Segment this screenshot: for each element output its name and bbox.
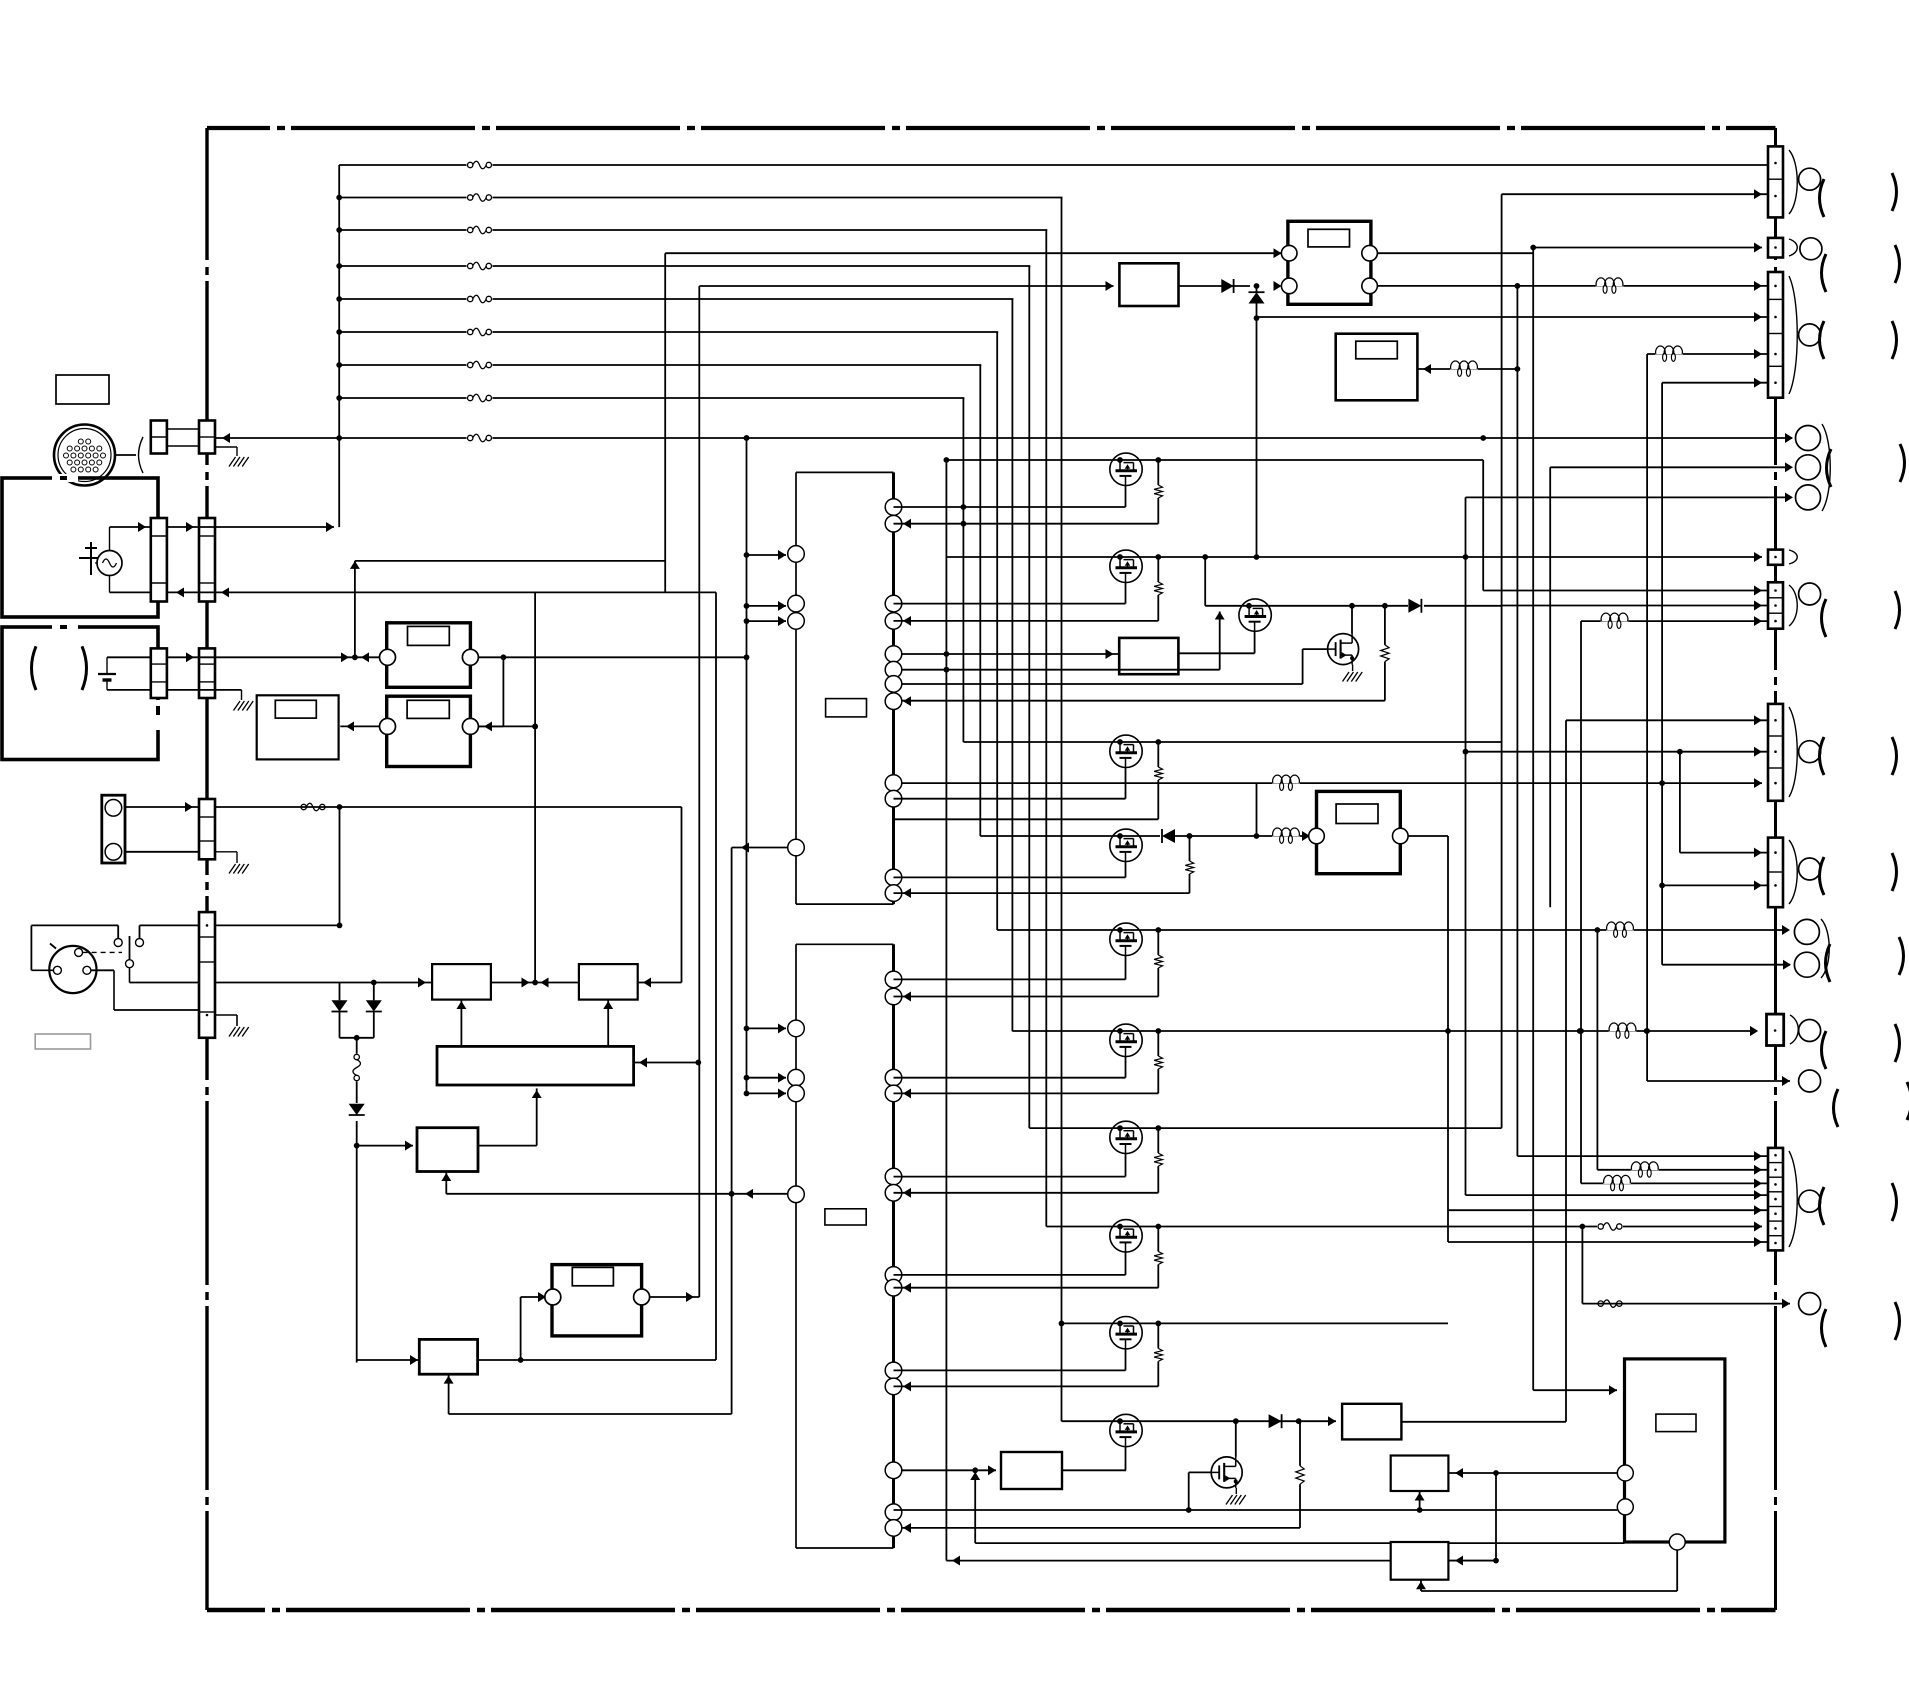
wire bus stub down bbox=[338, 526, 340, 528]
wire B12 out bbox=[1178, 652, 1254, 654]
IC U2 pin bbox=[885, 1085, 902, 1102]
diode D6 bbox=[1179, 285, 1251, 287]
wire conn9 bottom bbox=[1466, 496, 1792, 498]
diode D1 bbox=[339, 983, 341, 1001]
connector CN13 ring bbox=[1799, 858, 1821, 880]
wire B13 bottom bbox=[1419, 1491, 1421, 1510]
wire charge line bbox=[167, 526, 334, 528]
wire ECU p1 branch bbox=[1495, 1473, 1497, 1561]
wire relay feed riser bbox=[354, 561, 356, 657]
inductor L4 bbox=[1272, 828, 1300, 837]
wire R2 coil bbox=[532, 724, 538, 730]
wire conn11 p2 bbox=[1502, 605, 1768, 607]
box B14 bbox=[1391, 1542, 1449, 1580]
wire R4 out bbox=[1408, 835, 1448, 837]
wire source bbox=[1125, 1154, 1127, 1177]
fuse F2 bbox=[467, 193, 493, 203]
connector CN8 ring bbox=[1799, 324, 1821, 346]
wire Q10 gate bbox=[1188, 1472, 1190, 1510]
wire Q10 gate2 bbox=[1189, 1509, 1618, 1511]
wire bus nested risers bbox=[1063, 195, 1771, 200]
wire IC1 pin4 stub bbox=[732, 847, 788, 849]
wire cn16 p4 bbox=[1466, 1194, 1769, 1196]
text parens bbox=[1820, 179, 1825, 217]
wire vertical riser bbox=[1011, 299, 1013, 1031]
IC U2 pin bbox=[885, 1362, 902, 1379]
IC U2 pin bbox=[885, 1520, 902, 1537]
wire source bbox=[1125, 583, 1127, 604]
wire source bbox=[1125, 1057, 1127, 1078]
relay R4 pins bbox=[1309, 828, 1325, 844]
connector CN1a bbox=[151, 421, 167, 454]
IC U2 pin bbox=[788, 1020, 805, 1037]
wire riser bbox=[1501, 194, 1503, 1128]
fuse F11 bbox=[1597, 1222, 1623, 1232]
wire lower return bbox=[974, 1470, 976, 1543]
IC U2 pin bbox=[885, 988, 902, 1005]
label box (blank callout) bbox=[56, 375, 109, 404]
IC U2 pin bbox=[885, 1378, 902, 1395]
inductor L1 bbox=[1596, 277, 1624, 286]
wire ECU p1 bbox=[1448, 1472, 1617, 1474]
relay R4 (pump relay) bbox=[1317, 791, 1401, 873]
connector CN5 on boundary bbox=[199, 912, 215, 1038]
connector CN16 ring bbox=[1799, 1190, 1821, 1212]
connector CN3a bbox=[151, 648, 167, 698]
wire into B7 bbox=[357, 1359, 716, 1361]
connector CN10 (1-pin) bbox=[1768, 550, 1783, 565]
connector CN11 (3-pin) bbox=[1768, 582, 1783, 628]
wire lower circle feed bbox=[1647, 1080, 1790, 1082]
IC U1 pin bbox=[885, 595, 902, 612]
connector CN2a bbox=[151, 518, 167, 602]
connector CN17 ring bbox=[1799, 1293, 1821, 1315]
box B8 (driver) bbox=[1342, 1404, 1401, 1440]
IC U1 pin bbox=[788, 595, 805, 612]
wire source bbox=[1125, 956, 1127, 980]
box B10 (igniter) bbox=[1119, 263, 1178, 306]
transistor Q bbox=[1110, 735, 1142, 767]
wire drop to relay R4 bbox=[1256, 783, 1258, 836]
connector CN14 (2 rings) bbox=[1794, 919, 1819, 944]
transistor Q bbox=[1110, 829, 1142, 861]
wire R1 to R2 bbox=[502, 657, 504, 726]
wire fuse branch 8 bbox=[339, 397, 1770, 399]
fuse F9 bbox=[300, 802, 326, 812]
label box grey bbox=[35, 1034, 90, 1049]
wire return riser bbox=[715, 592, 717, 1360]
text parens bbox=[1822, 1309, 1827, 1347]
zener diode D7 bbox=[1256, 286, 1258, 292]
inductor L8 bbox=[1606, 922, 1634, 931]
transistor Q bbox=[1110, 1317, 1142, 1349]
wire conn3 pin4 feed bbox=[1661, 383, 1663, 965]
wire return drop bbox=[534, 592, 536, 982]
connector CN7 (1-pin) bbox=[1768, 238, 1783, 258]
ECU pin2 bbox=[1617, 1499, 1633, 1515]
wire ground stub CN1b bbox=[215, 446, 237, 448]
wire fuse branch 1 bbox=[339, 164, 1768, 166]
IC U2 label bbox=[825, 1209, 866, 1225]
IC U2 pin bbox=[788, 1085, 805, 1102]
resistor R bbox=[1155, 1321, 1161, 1327]
inductor L11 bbox=[1603, 1175, 1631, 1184]
wire source bbox=[1125, 1252, 1127, 1275]
diode D5 bbox=[1269, 1414, 1282, 1428]
ground bbox=[229, 1027, 236, 1037]
text parens bbox=[1826, 944, 1831, 982]
wire aux feed bbox=[1254, 315, 1260, 321]
IC U1 pin bbox=[885, 499, 902, 516]
relay R5 pins bbox=[1281, 245, 1297, 261]
wire ECU feed bbox=[1532, 248, 1534, 1391]
fuse F5 bbox=[467, 294, 493, 304]
wire cn16 p5 bbox=[1448, 1209, 1768, 1211]
wire connector tail bbox=[116, 454, 137, 456]
transistor Q bbox=[1110, 550, 1142, 582]
wire battery ground bbox=[167, 689, 242, 691]
connector CN8 (4-pin) bbox=[1768, 272, 1783, 398]
text parens bbox=[1822, 1031, 1827, 1069]
wire cn17 line bbox=[1582, 1303, 1790, 1305]
wire R2 to B1 bbox=[340, 725, 379, 727]
wire main feed bus vertical bbox=[338, 165, 340, 527]
IC block U2 bbox=[796, 944, 894, 1548]
multi-pin round connector bbox=[54, 425, 115, 486]
wire vertical riser bbox=[979, 365, 981, 836]
wire switch loop bbox=[31, 969, 53, 971]
box B1 (regulator) bbox=[257, 695, 339, 759]
inductor L10 bbox=[1631, 1161, 1659, 1170]
ground bbox=[1226, 1495, 1233, 1505]
wire IC2 left pin feed bbox=[744, 1075, 750, 1081]
wire cn17 drop bbox=[1581, 1227, 1583, 1304]
IC U2 pin bbox=[788, 1069, 805, 1086]
IC U1 pin bbox=[885, 693, 902, 710]
connector CN6 ring bbox=[1799, 168, 1821, 190]
IC U1 pin bbox=[788, 613, 805, 630]
relay R5 (main relay) bbox=[1288, 221, 1371, 304]
wire fuse branch 2 bbox=[339, 197, 1770, 199]
ground bbox=[229, 457, 236, 467]
transistor Q11 bbox=[1205, 605, 1501, 607]
fuse F12 bbox=[1597, 1299, 1623, 1309]
ground bbox=[234, 701, 241, 711]
transistor Q bbox=[1110, 1024, 1142, 1056]
connector CN4 on boundary bbox=[199, 799, 215, 859]
IC U1 pin bbox=[885, 613, 902, 630]
battery box 1 (generator unit) bbox=[2, 478, 158, 617]
wire vertical riser bbox=[1061, 198, 1063, 1422]
transistor Q bbox=[1110, 1220, 1142, 1252]
wire source bbox=[1125, 1349, 1127, 1371]
wire fuse branch 3 bbox=[339, 229, 1770, 231]
IC U2 pin bbox=[885, 1504, 902, 1521]
wire B12 input bbox=[902, 653, 1120, 655]
wire cn16 p2 bbox=[1597, 1169, 1768, 1171]
text parens bbox=[1820, 857, 1825, 895]
wire cn16 p3 bbox=[1581, 1182, 1768, 1184]
connector CN16 (8-pin) bbox=[1768, 1148, 1783, 1251]
IC U1 pin bbox=[788, 839, 805, 856]
IC U2 pin bbox=[885, 1462, 902, 1479]
connector CN1b on boundary bbox=[199, 421, 215, 454]
IC U1 label bbox=[826, 699, 867, 717]
wire cn16 p8 bbox=[1448, 1241, 1768, 1243]
fuse F8 bbox=[467, 393, 493, 403]
wire driver row bbox=[997, 929, 1788, 931]
wire B7 bottom feed bbox=[448, 1374, 450, 1414]
wire conn3 pin3 feed bbox=[1646, 354, 1648, 1081]
wire relay R5 feed bbox=[665, 252, 1281, 254]
wire generator output bbox=[109, 527, 111, 551]
box B6 bbox=[579, 964, 638, 1000]
connector CN12 ring bbox=[1799, 741, 1821, 763]
IC U2 pin bbox=[788, 1186, 805, 1203]
wire diode join bbox=[340, 1037, 374, 1039]
wire feedback line bbox=[446, 1193, 796, 1195]
wire cn16 p1 bbox=[1517, 1155, 1768, 1157]
ECU label bbox=[1656, 1414, 1696, 1432]
wire R3 feed bbox=[520, 1297, 522, 1360]
wire lower feedback bbox=[449, 1413, 732, 1415]
transistor Q10 (low-side) bbox=[1235, 1421, 1237, 1457]
wire ECU p3 bbox=[1676, 1550, 1678, 1591]
junction dots bbox=[744, 435, 750, 441]
switch contacts bbox=[83, 951, 122, 953]
box B5 bbox=[432, 964, 491, 1000]
diode D4 bbox=[1160, 829, 1175, 843]
IC U2 pin bbox=[885, 1168, 902, 1185]
wire driver row bbox=[980, 835, 1162, 837]
relay R2 pin 2 bbox=[462, 718, 478, 734]
wire sensor signal bbox=[125, 806, 199, 808]
fuse F1 bbox=[467, 160, 493, 170]
connector CN9 (3 rings) bbox=[1796, 426, 1821, 451]
resistor R bbox=[1155, 927, 1161, 933]
wire battery feed to relay bbox=[167, 656, 388, 658]
wire fuse branch 5 bbox=[339, 298, 1770, 300]
resistor R bbox=[1155, 739, 1161, 745]
IC U2 pin bbox=[885, 1185, 902, 1202]
wire R3 riser bbox=[698, 286, 700, 1297]
wire Q12 gate bbox=[1302, 649, 1304, 684]
wire sensor return bbox=[125, 851, 199, 853]
wire R11 return bbox=[902, 700, 1385, 702]
wire B8 output bbox=[1401, 1421, 1566, 1423]
wire battery negative bbox=[107, 689, 151, 691]
wire B9 out bbox=[1062, 1469, 1126, 1471]
transistor Q bbox=[1110, 1121, 1142, 1153]
text parens bbox=[1834, 1089, 1839, 1127]
box B7 bbox=[419, 1339, 477, 1374]
wire ignition feed branch bbox=[215, 437, 1792, 439]
transistor Q9 bbox=[1110, 1414, 1142, 1446]
wire driver row bbox=[946, 459, 1483, 461]
wire switch output bbox=[130, 982, 433, 984]
wire conn12 p2 bbox=[1466, 751, 1769, 753]
IC U1 pin bbox=[885, 661, 902, 678]
text parens bbox=[1822, 254, 1827, 292]
connector CN15 (1-pin) bbox=[1767, 1014, 1784, 1045]
resistor R bbox=[1187, 833, 1193, 839]
resistor R bbox=[1155, 1028, 1161, 1034]
resistor R bbox=[1155, 1224, 1161, 1230]
wire R5 out2 bbox=[1377, 285, 1770, 287]
battery text parens bbox=[32, 646, 37, 690]
text parens bbox=[1820, 321, 1825, 359]
wire conn9 mid bbox=[1550, 466, 1791, 468]
relay R3 pin2 bbox=[634, 1289, 650, 1305]
diode D3 bbox=[349, 1103, 365, 1121]
key switch SW1 bbox=[49, 946, 96, 993]
connector CN3b on boundary bbox=[199, 648, 215, 698]
resistor R11 bbox=[1384, 606, 1386, 645]
wire vertical riser bbox=[1045, 230, 1047, 1227]
transistor Q12 (low-side) bbox=[1351, 606, 1353, 634]
wire conn11 p3 bbox=[1581, 620, 1768, 622]
circuit breaker CB1 bbox=[352, 1054, 362, 1082]
resistor R bbox=[1155, 457, 1161, 463]
fuse F7 bbox=[467, 360, 493, 370]
inductor L2 bbox=[1450, 361, 1478, 370]
text parens bbox=[1820, 737, 1825, 775]
ECU pin1 bbox=[1617, 1465, 1633, 1481]
wire relay feed top bbox=[355, 560, 665, 562]
wire into B14 bbox=[1455, 1556, 1463, 1566]
transistor Q bbox=[1110, 453, 1142, 485]
relay R2 pin 1 bbox=[380, 718, 396, 734]
wire conn13 p2 bbox=[1662, 884, 1768, 886]
wire B14 bottom bbox=[1420, 1580, 1422, 1591]
wire loop drop bbox=[681, 807, 683, 983]
connector CN6 (2-pin) bbox=[1768, 146, 1783, 217]
wire loop into B6 bbox=[638, 982, 682, 984]
wire B4 bottom feed bbox=[445, 1172, 447, 1194]
wire sensor ground bbox=[215, 851, 237, 853]
driver row 9 (output stage) bbox=[1062, 1420, 1337, 1422]
wire inductor feed row bbox=[902, 782, 1763, 784]
wire R1 output bbox=[478, 656, 746, 658]
inductor L5 bbox=[1272, 775, 1300, 784]
inductor L6 bbox=[1601, 613, 1629, 622]
IC U1 pin bbox=[885, 869, 902, 886]
fuse F3 bbox=[467, 225, 493, 235]
inductor L9 bbox=[1609, 1023, 1637, 1032]
wire R5 out1 bbox=[1377, 252, 1533, 254]
wire arrow into CN1b (ignition feed) bbox=[222, 433, 230, 443]
box B13 bbox=[1391, 1456, 1449, 1492]
relay R3 pin1 bbox=[545, 1289, 561, 1305]
wire conn feed bbox=[1533, 247, 1762, 249]
resistor R bbox=[1155, 1125, 1161, 1131]
wire conn11 p1 bbox=[1483, 590, 1768, 592]
wire drop bbox=[1679, 752, 1681, 853]
wire CN5 ground stub bbox=[215, 1014, 237, 1016]
ECU pin3 bbox=[1669, 1534, 1685, 1550]
wire riser from bottom wire bbox=[945, 460, 947, 1561]
wire vertical riser bbox=[996, 332, 998, 930]
wire bottom feedback bbox=[946, 1560, 1496, 1562]
connector CN13 (2-pin) bbox=[1768, 838, 1783, 908]
IC U1 pin bbox=[885, 790, 902, 807]
wire source bbox=[1125, 768, 1127, 799]
wire fuse branch 7 bbox=[339, 364, 1770, 366]
wire conn feed 2 bbox=[1502, 193, 1768, 195]
relay R1 bbox=[387, 623, 471, 688]
relay R1 pin 1 bbox=[380, 649, 396, 665]
ground bbox=[1343, 672, 1350, 682]
wire source bbox=[1125, 862, 1127, 878]
wire driver row bbox=[963, 741, 1502, 743]
wire B5-B6 junction bbox=[491, 982, 579, 984]
resistor R9 bbox=[1299, 1421, 1301, 1466]
inductor L3 bbox=[1655, 346, 1683, 355]
ring pin below bbox=[1799, 1070, 1821, 1092]
IC U1 pin bbox=[885, 676, 902, 693]
wire IC2 left pin feed bbox=[744, 1026, 750, 1032]
connector CN12 (3-pin) bbox=[1768, 704, 1783, 801]
wire driver row bbox=[1029, 1127, 1501, 1129]
wire conn14 p2 bbox=[1662, 964, 1790, 966]
wire battery positive bbox=[107, 656, 151, 658]
ground bbox=[229, 864, 236, 874]
wire pin3 line bbox=[91, 969, 114, 971]
IC U2 pin bbox=[885, 1279, 902, 1296]
wire breaker chain bbox=[356, 1038, 358, 1363]
wire fuse branch 4 bbox=[339, 265, 1770, 267]
wire sensor feed line bbox=[215, 806, 682, 808]
text parens bbox=[1820, 1187, 1825, 1225]
text parens bbox=[1827, 449, 1832, 487]
IC U1 pin bbox=[788, 546, 805, 563]
wire generator return bbox=[109, 576, 111, 593]
wire IC1 left pin feed bbox=[744, 618, 750, 624]
wire gate drop bbox=[1204, 557, 1206, 606]
wire R4 drop bbox=[1447, 836, 1449, 1242]
wire into B9 bbox=[902, 1469, 997, 1471]
wire switch right line bbox=[140, 924, 340, 926]
wire U1 pin sense bbox=[902, 669, 1220, 671]
wire vertical riser bbox=[962, 398, 964, 742]
fuse F4 bbox=[467, 261, 493, 271]
wire source bbox=[1125, 486, 1127, 508]
wire IC1 left pin feed bbox=[744, 552, 750, 558]
box B2 (main control) bbox=[437, 1046, 634, 1085]
arrows into IC return pins bbox=[903, 519, 911, 529]
IC U2 pin bbox=[885, 1069, 902, 1086]
battery symbol bbox=[106, 657, 108, 674]
wire driver row bbox=[1046, 1226, 1762, 1228]
wire box feeds bbox=[460, 1000, 462, 1047]
wire driver row bbox=[1012, 1030, 1752, 1032]
wire R3 output bbox=[650, 1296, 700, 1298]
wire B11 input bbox=[1417, 368, 1517, 370]
wire vertical riser bbox=[1028, 266, 1030, 1128]
transistor Q bbox=[1110, 923, 1142, 955]
diode D8 bbox=[1408, 599, 1424, 613]
wire resistor return bbox=[902, 1527, 1301, 1529]
sensor S1 (2-pin) bbox=[102, 795, 125, 863]
box B4 (control unit) bbox=[417, 1128, 478, 1172]
IC U1 pin bbox=[885, 775, 902, 792]
IC block U1 bbox=[796, 472, 894, 904]
wire driver row bbox=[946, 556, 1762, 558]
fuse F10 bbox=[467, 433, 493, 443]
resistor R bbox=[1155, 554, 1161, 560]
ECU block bbox=[1625, 1359, 1725, 1542]
wire to box B4 bbox=[354, 1143, 360, 1149]
